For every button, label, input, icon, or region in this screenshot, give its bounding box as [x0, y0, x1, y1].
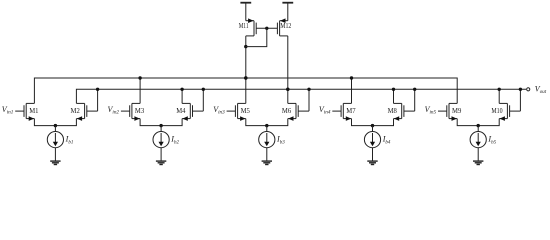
ground stage 1: [50, 160, 60, 162]
transistor M7 (NMOS, gate Vin4): [332, 110, 341, 112]
svg-text:M1: M1: [29, 106, 38, 115]
junction tail stage 1: [54, 124, 57, 127]
svg-text:Vin3: Vin3: [213, 105, 225, 116]
transistor M10 (NMOS, diode on output rail): [510, 110, 521, 112]
svg-text:Ib2: Ib2: [170, 135, 179, 146]
junction M6 drain on rail2: [286, 88, 289, 91]
wire tail node stage 4 (sources of M7,M8): [352, 119, 394, 126]
wire M4 gate up to rail2: [202, 89, 204, 111]
junction tail stage 5: [477, 124, 480, 127]
svg-text:Vin2: Vin2: [108, 105, 120, 116]
current source Ib4: [372, 126, 374, 132]
svg-text:Ib1: Ib1: [65, 135, 74, 146]
junction M6 gate on rail2: [307, 88, 310, 91]
svg-text:M3: M3: [135, 106, 144, 115]
transistor M8 (NMOS, diode on output rail): [404, 110, 415, 112]
transistor M12 (PMOS): [279, 21, 281, 36]
wire Ib1 to ground: [54, 148, 56, 161]
wire M11 source to VDD: [245, 3, 247, 21]
wire M6 drain up to rail2: [287, 89, 289, 103]
wire Ib2 to ground: [160, 148, 162, 161]
current source Ib1: [54, 126, 56, 132]
current source Ib5: [477, 126, 479, 132]
svg-text:M12: M12: [280, 21, 291, 30]
transistor M4 (NMOS, diode on output rail): [193, 110, 204, 112]
ground stage 4: [367, 160, 377, 162]
transistor M5 (NMOS, gate Vin3): [227, 110, 236, 112]
junction M10 gate on rail2: [519, 88, 522, 91]
svg-text:Vin1: Vin1: [2, 105, 14, 116]
wire rail1: drains of M1,M3,M5,M7,M9 + M11: [34, 78, 457, 103]
wire M12 drain down to rail2 (crosses rail1): [287, 36, 289, 89]
transistor M11 (PMOS, diode-connected): [253, 21, 255, 36]
wire diode connection (M11 drain to gates): [246, 28, 267, 46]
wire M10 drain up to rail2: [498, 89, 500, 103]
transistor M2 (NMOS, diode on output rail): [87, 110, 98, 112]
svg-text:M5: M5: [241, 106, 250, 115]
wire Ib4 to ground: [372, 148, 374, 161]
wire M8 drain up to rail2: [393, 89, 395, 103]
wire tail node stage 3 (sources of M5,M6): [246, 119, 288, 126]
junction tail stage 3: [265, 124, 268, 127]
wire M10 gate up to rail2: [519, 89, 521, 111]
svg-text:M2: M2: [71, 106, 80, 115]
transistor M1 (NMOS, gate Vin1): [15, 110, 24, 112]
svg-text:M9: M9: [452, 106, 461, 115]
svg-text:M10: M10: [491, 106, 502, 115]
svg-text:M8: M8: [388, 106, 397, 115]
junction M8 gate on rail2: [413, 88, 416, 91]
svg-text:M6: M6: [282, 106, 291, 115]
ground stage 2: [156, 160, 166, 162]
junction rail1 M5 drain / M11 drain: [244, 76, 247, 79]
wire tail node stage 1 (sources of M1,M2): [34, 119, 76, 126]
svg-text:M7: M7: [346, 106, 355, 115]
wire tail node stage 5 (sources of M9,M10): [457, 119, 499, 126]
wire M3 drain to rail1 (crosses rail2): [139, 78, 141, 103]
junction M8 drain on rail2: [392, 88, 395, 91]
junction M4 gate on rail2: [202, 88, 205, 91]
ground stage 3: [262, 160, 272, 162]
wire tail node stage 2 (sources of M3,M4): [140, 119, 182, 126]
node Vout terminal: [527, 88, 530, 91]
junction M4 drain on rail2: [180, 88, 183, 91]
junction rail2 M6/M12 drain: [286, 88, 289, 91]
junction tail stage 4: [371, 124, 374, 127]
junction tail stage 2: [159, 124, 162, 127]
power VDD bar right (M12 source): [282, 2, 293, 4]
current source Ib3: [266, 126, 268, 132]
wire M4 drain up to rail2: [181, 89, 183, 103]
transistor M9 (NMOS, gate Vin5): [438, 110, 447, 112]
wire Ib3 to ground: [266, 148, 268, 161]
junction M7 drain on rail1: [350, 76, 353, 79]
ground stage 5: [473, 160, 483, 162]
svg-text:Vout: Vout: [535, 84, 547, 95]
svg-text:M4: M4: [176, 106, 185, 115]
junction M3 drain on rail1: [138, 76, 141, 79]
junction M11 drain / diode tap: [244, 45, 247, 48]
svg-text:Vin5: Vin5: [425, 105, 437, 116]
transistor M3 (NMOS, gate Vin2): [121, 110, 130, 112]
junction gate wire / diode tap: [265, 27, 268, 30]
wire rail2: output net (drains/gates of M2,M4,M6,M8,M10 + M12 drain): [76, 89, 526, 103]
wire M5 drain to rail1 (crosses rail2): [245, 78, 247, 103]
current source Ib2: [160, 126, 162, 132]
wire M2 gate up to rail2: [97, 89, 99, 111]
svg-text:Ib5: Ib5: [487, 135, 496, 146]
junction M10 drain on rail2: [498, 88, 501, 91]
wire M6 gate up to rail2: [308, 89, 310, 111]
svg-text:Ib4: Ib4: [382, 135, 391, 146]
wire M12 source to VDD: [287, 3, 289, 21]
svg-text:M11: M11: [239, 21, 249, 30]
svg-text:Vin4: Vin4: [319, 105, 331, 116]
wire M11-M12 gate connection: [256, 27, 277, 29]
svg-text:Ib3: Ib3: [276, 135, 285, 146]
junction M2 gate on rail2: [96, 88, 99, 91]
wire M11 drain down to rail1: [245, 36, 247, 78]
junction M5 drain on rail1: [244, 76, 247, 79]
wire Ib5 to ground: [477, 148, 479, 161]
wire M7 drain to rail1 (crosses rail2): [351, 78, 353, 103]
power VDD bar left (M11 source): [240, 2, 251, 4]
wire M8 gate up to rail2: [414, 89, 416, 111]
transistor M6 (NMOS, diode on output rail): [298, 110, 309, 112]
